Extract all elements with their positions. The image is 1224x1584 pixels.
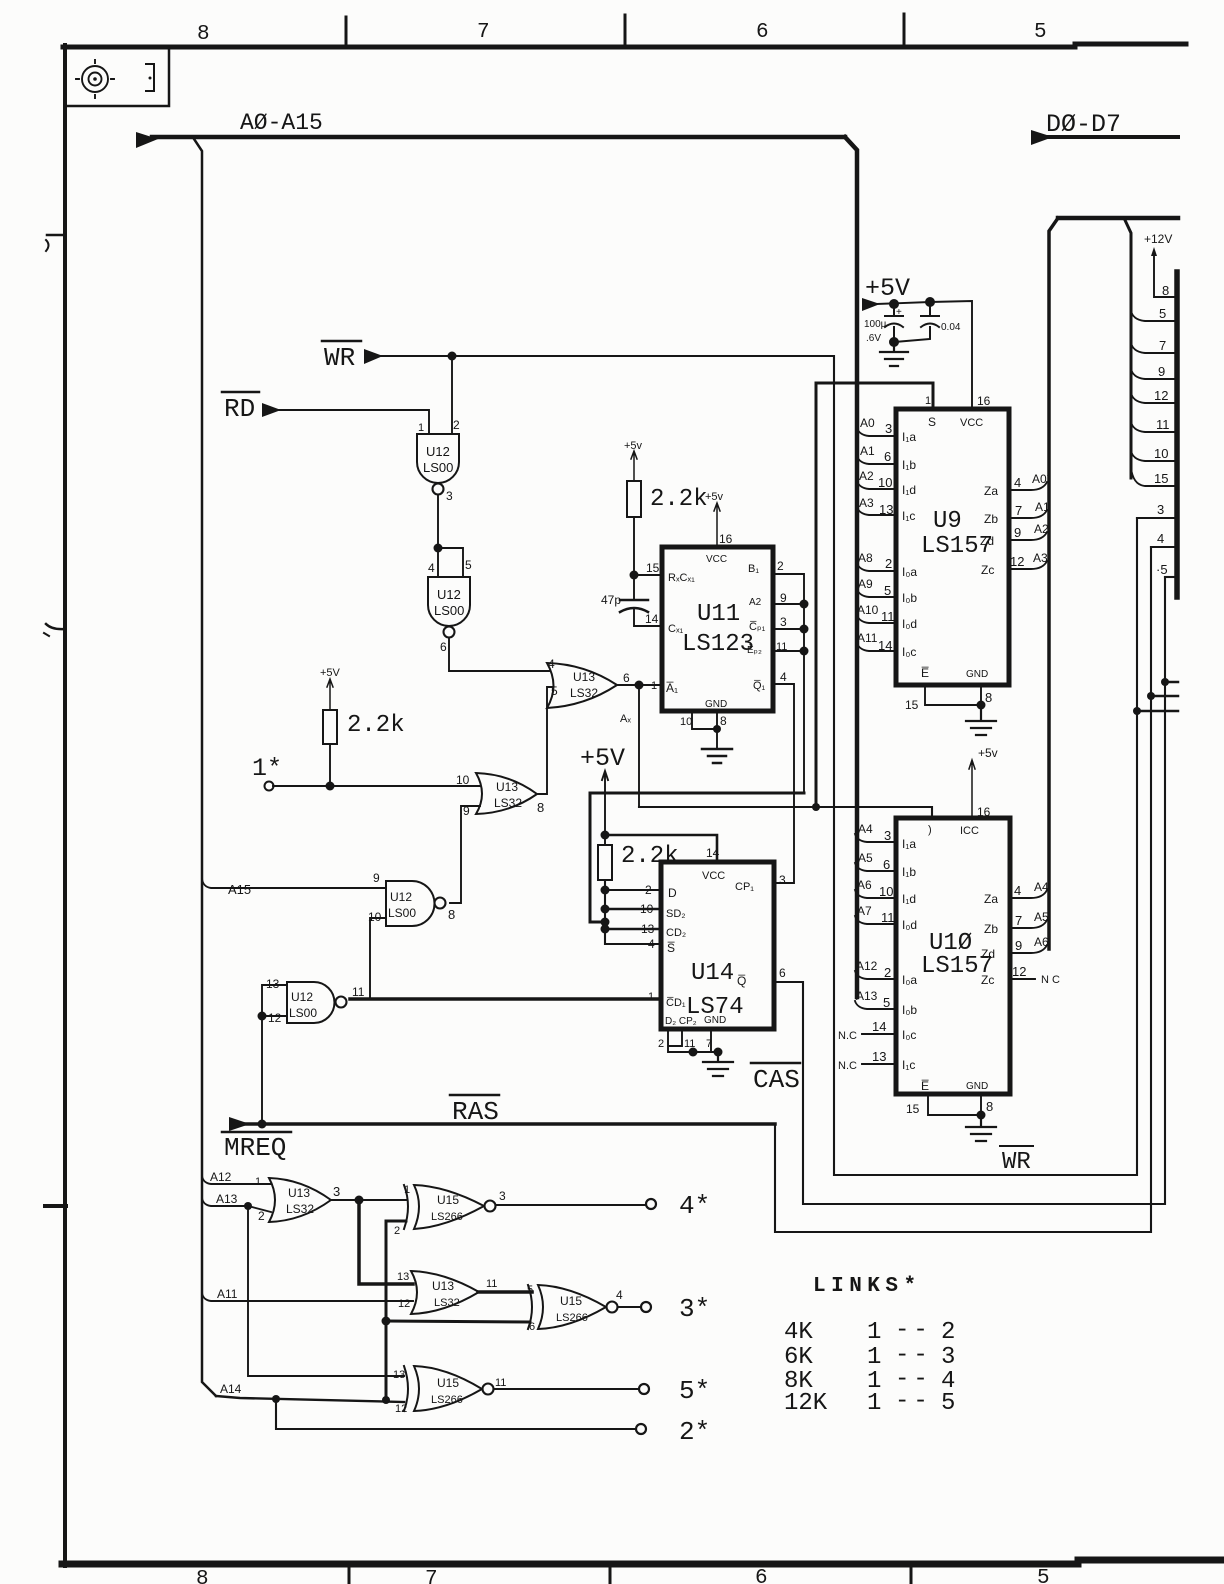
svg-text:--: -- (895, 1388, 932, 1415)
wire U11 pin9 (773, 603, 804, 605)
svg-text:11: 11 (486, 1278, 497, 1290)
U9 out Zd pin9 to bus (1009, 532, 1047, 540)
svg-text:2: 2 (884, 965, 891, 980)
registration bracket mark (146, 64, 154, 91)
svg-text:10: 10 (456, 773, 470, 787)
wire RAM pin bundle drop (1124, 218, 1131, 478)
svg-text:+5V: +5V (320, 667, 341, 679)
RAM pin 11 hook (1131, 422, 1177, 432)
U10 pin2 A12 hook (855, 971, 896, 979)
bus A0-A15 arrowhead (136, 132, 158, 148)
wire U13b out up to U13a pin5 (536, 687, 553, 794)
net CAS from U14 Q (774, 577, 1165, 1204)
svg-text:LS00: LS00 (388, 906, 416, 920)
svg-text:LS00: LS00 (289, 1006, 317, 1020)
svg-text:DØ-D7: DØ-D7 (1046, 110, 1121, 139)
svg-text:+5v: +5v (624, 440, 643, 452)
svg-text:14: 14 (878, 638, 892, 653)
svg-text:I₀c: I₀c (902, 645, 916, 659)
svg-text:A11: A11 (857, 631, 878, 645)
svg-text:I₀a: I₀a (902, 973, 917, 987)
bus D0-D7 arrowhead (1031, 130, 1053, 145)
svg-text:A13: A13 (216, 1192, 238, 1206)
svg-text:E̅: E̅ (921, 666, 929, 680)
svg-text:U13: U13 (432, 1279, 454, 1293)
wire U12d out to U14 pin1 CD1 (350, 997, 661, 1001)
junction cap2 (925, 297, 935, 307)
wire U12a out to U12b inputs (438, 495, 463, 577)
svg-text:+: + (896, 307, 902, 318)
svg-text:I₁b: I₁b (902, 458, 916, 472)
wire R to U11 pin15 (634, 517, 662, 598)
svg-text:100µ: 100µ (864, 319, 887, 330)
svg-text:CP₁: CP₁ (735, 881, 754, 893)
svg-text:1: 1 (867, 1344, 881, 1371)
ground U10 (966, 1115, 996, 1141)
svg-text:Za: Za (984, 484, 998, 498)
svg-text:A0´: A0´ (1032, 472, 1051, 486)
svg-text:4K: 4K (784, 1319, 813, 1346)
svg-text:15: 15 (646, 561, 660, 575)
RAM pin 5 hook (1131, 311, 1177, 321)
svg-text:10: 10 (680, 716, 692, 728)
svg-text:14: 14 (872, 1019, 886, 1034)
wire U13d out to U15b pin5 (478, 1290, 532, 1294)
svg-text:GND: GND (704, 1015, 726, 1026)
svg-text:S: S (928, 415, 936, 429)
wire U13c out to U15a pin1 (330, 1199, 406, 1201)
svg-text:6: 6 (440, 640, 447, 654)
wire +5V to U14 pin14 VCC (605, 835, 717, 862)
svg-text:D: D (668, 886, 677, 900)
XNOR U15c (404, 1366, 408, 1411)
junction WR branch stub (1133, 707, 1141, 715)
junction CAS branch stub (1161, 678, 1169, 686)
svg-text:5: 5 (884, 583, 891, 598)
svg-text:I₀a: I₀a (902, 565, 917, 579)
svg-text:A8: A8 (858, 551, 873, 565)
svg-text:I₁b: I₁b (902, 865, 916, 879)
svg-text:16: 16 (977, 394, 991, 408)
wire to U14 pin2 D (605, 889, 661, 891)
svg-text:ICC: ICC (960, 825, 979, 837)
node A11 tap (202, 1293, 413, 1301)
svg-text:5: 5 (527, 1284, 533, 1296)
svg-text:S̅: S̅ (667, 941, 675, 955)
svg-text:3: 3 (941, 1344, 955, 1371)
left border tick y628 (46, 624, 65, 629)
U9 out Zc pin12 to bus (1009, 561, 1047, 569)
junction WR to U12a (448, 352, 457, 361)
svg-text:6: 6 (756, 21, 769, 44)
junction A14 to 2-star (272, 1395, 280, 1403)
U10 pin11 A7 hook (855, 916, 896, 924)
svg-text:8: 8 (1162, 283, 1169, 298)
wire select to U10 S (639, 807, 932, 818)
registration target mark (82, 66, 108, 92)
wire U12d input tie (262, 985, 287, 1124)
U10 pin6 A5 hook (855, 863, 896, 871)
svg-text:·5: ·5 (1156, 562, 1168, 577)
svg-text:15: 15 (1154, 471, 1168, 486)
capacitor C 0.04 (894, 302, 939, 342)
svg-text:13: 13 (879, 502, 893, 517)
svg-text:I₀c: I₀c (902, 1028, 916, 1042)
svg-text:A10: A10 (857, 603, 879, 617)
svg-text:7: 7 (1159, 338, 1166, 353)
RAM pin 7 hook (1131, 343, 1177, 353)
svg-text:2: 2 (394, 1225, 400, 1237)
svg-text:GND: GND (966, 669, 988, 680)
svg-text:12K: 12K (784, 1390, 828, 1417)
svg-text:U15: U15 (437, 1193, 459, 1207)
svg-text:Zb: Zb (984, 512, 998, 526)
wire muxed address bus vertical (1049, 218, 1058, 949)
wire pullup rail down (605, 880, 661, 944)
junction pullup D (601, 886, 610, 895)
wire RAS branch stub (1151, 695, 1178, 698)
svg-text:GND: GND (966, 1081, 988, 1092)
junction +5V to U14 VCC (601, 831, 610, 840)
svg-text:+5v: +5v (705, 491, 724, 503)
junction A14 to U15a pin2 net (382, 1396, 390, 1404)
svg-text:3: 3 (779, 873, 786, 887)
OR U13b (476, 773, 537, 814)
svg-text:13: 13 (641, 922, 655, 936)
RAM pin 4 wire (RAS) (1151, 546, 1177, 548)
svg-text:8: 8 (537, 800, 544, 815)
svg-text:11: 11 (881, 609, 895, 624)
svg-text:A13: A13 (856, 989, 878, 1003)
svg-text:5*: 5* (679, 1376, 710, 1406)
svg-text:4: 4 (428, 561, 435, 575)
svg-text:A2: A2 (1034, 522, 1049, 536)
junction RxCx (630, 571, 639, 580)
svg-text:U9: U9 (933, 508, 962, 535)
svg-text:A3: A3 (859, 496, 874, 510)
wire MREQ / RAS (246, 1122, 775, 1126)
net select vertical A (638, 685, 640, 807)
svg-text:LS266: LS266 (431, 1211, 463, 1223)
svg-text:RAS: RAS (452, 1097, 499, 1127)
svg-text:2: 2 (258, 1209, 265, 1223)
U9 pin11 A10 hook (857, 615, 896, 623)
svg-text:A11: A11 (217, 1287, 238, 1301)
svg-text:7: 7 (1015, 913, 1022, 928)
svg-text:5: 5 (883, 995, 890, 1010)
svg-text:WR: WR (324, 343, 355, 373)
svg-text:N.C: N.C (838, 1060, 857, 1072)
svg-text:16: 16 (719, 532, 733, 546)
svg-text:A2: A2 (749, 597, 762, 608)
wire RAS route right (775, 547, 1151, 1232)
svg-text:11: 11 (495, 1377, 506, 1389)
svg-text:Zd: Zd (980, 534, 994, 548)
RAM pin 15 hook (1131, 468, 1177, 486)
svg-text:LS32: LS32 (434, 1297, 460, 1309)
svg-text:4: 4 (548, 657, 555, 671)
wire select riser to U9 S (816, 383, 933, 807)
svg-text:11: 11 (881, 910, 895, 925)
svg-text:6: 6 (623, 671, 630, 685)
svg-text:A3: A3 (1033, 551, 1048, 565)
junction A13 branch (244, 1202, 252, 1210)
svg-text:5: 5 (1034, 21, 1047, 44)
zone tick bottom 7/6 (348, 1564, 351, 1584)
svg-text:8: 8 (197, 23, 210, 46)
svg-text:8: 8 (448, 907, 455, 922)
wire U15b out to 3-star (618, 1306, 641, 1308)
svg-text:15: 15 (905, 698, 919, 712)
svg-text:--: -- (895, 1342, 932, 1369)
svg-text:2: 2 (941, 1319, 955, 1346)
junction select riser (812, 803, 820, 811)
svg-text:B₁: B₁ (748, 563, 759, 575)
svg-text:13: 13 (393, 1369, 405, 1381)
page border bottom (62, 1560, 1224, 1564)
svg-text:VCC: VCC (960, 417, 983, 429)
svg-text:4: 4 (780, 670, 787, 684)
svg-text:LS32: LS32 (286, 1202, 314, 1216)
wire U12b out to U13a pin4 (449, 638, 549, 671)
terminal 3-star (641, 1302, 651, 1312)
svg-text:6: 6 (755, 1567, 768, 1584)
wire U15c out to 5-star (494, 1388, 639, 1390)
svg-text:7: 7 (706, 1038, 712, 1050)
svg-text:I₁d: I₁d (902, 892, 916, 906)
svg-text:--: -- (895, 1317, 932, 1344)
svg-text:A5: A5 (1034, 910, 1049, 924)
svg-text:9: 9 (373, 871, 380, 885)
svg-text:8: 8 (720, 714, 727, 728)
wire U12c pin10 from RAS net (370, 918, 386, 998)
wire U11 B1 pin2 to pullup rail (773, 574, 804, 793)
svg-text:AØ-A15: AØ-A15 (240, 110, 323, 136)
svg-text:D₂ CP₂: D₂ CP₂ (665, 1016, 697, 1027)
svg-text:N.C: N.C (838, 1030, 857, 1042)
svg-text:Zc: Zc (981, 973, 994, 987)
svg-text:2: 2 (658, 1038, 664, 1050)
resistor R 2.2k (U14 pullup) (598, 845, 612, 880)
U10 pin14 NC stub (862, 1033, 896, 1035)
NAND U12c (A15) (386, 881, 435, 926)
net RD arrowhead (262, 403, 281, 417)
capacitor 47p (620, 599, 648, 602)
svg-text:A15: A15 (228, 882, 251, 897)
wire muxed address bus loop top (1058, 216, 1178, 221)
svg-text:6: 6 (883, 857, 890, 872)
svg-text:I₁d: I₁d (902, 483, 916, 497)
svg-text:9: 9 (1014, 525, 1021, 540)
svg-text:12: 12 (1012, 964, 1026, 979)
svg-text:A5: A5 (858, 851, 873, 865)
svg-text:5: 5 (941, 1390, 955, 1417)
IC U11 LS123 box (662, 547, 773, 711)
NAND U12a (WR.RD) (417, 434, 459, 483)
wire to U15b pin6 (386, 1321, 530, 1322)
svg-text:CAS: CAS (753, 1065, 800, 1095)
svg-text:1: 1 (648, 991, 654, 1003)
svg-text:10: 10 (1154, 446, 1168, 461)
svg-text:47p: 47p (601, 593, 621, 607)
svg-text:3*: 3* (679, 1294, 710, 1324)
svg-text:LS266: LS266 (556, 1312, 588, 1324)
svg-text:5: 5 (1159, 306, 1166, 321)
svg-text:C̅D₁: C̅D₁ (666, 997, 686, 1009)
U9 out Zb pin7 to bus (1009, 510, 1047, 518)
left border tick y237 (47, 234, 64, 237)
svg-text:A12: A12 (856, 959, 878, 973)
junction pullup from U11 rail (601, 918, 610, 927)
svg-text:3: 3 (884, 828, 891, 843)
svg-text:C̅ₚ₁: C̅ₚ₁ (749, 621, 766, 633)
wire +12V to RAM pin 8 (1154, 252, 1177, 297)
OR U13d (A11) (411, 1271, 479, 1314)
svg-text:3: 3 (780, 615, 787, 629)
RAM pin 3 wire (WR) (1137, 517, 1177, 519)
wire U11 pin3 (773, 628, 804, 630)
U14 bottom pins 2,11,7 (668, 1029, 718, 1052)
IC U14 LS74 box (661, 862, 774, 1029)
svg-text:I₁a: I₁a (902, 430, 916, 444)
svg-text:7: 7 (425, 1568, 438, 1584)
svg-text:A6: A6 (1034, 935, 1049, 949)
U9 pin5 A9 hook (857, 589, 896, 597)
wire bus A0-A15 horizontal (152, 135, 845, 140)
svg-text:A4: A4 (1034, 880, 1049, 894)
U10 out Za pin4 to bus (1010, 890, 1047, 898)
svg-text:8: 8 (986, 1099, 993, 1114)
svg-text:11: 11 (1156, 417, 1170, 432)
svg-text:U12: U12 (426, 444, 450, 459)
svg-text:U13: U13 (496, 780, 518, 794)
svg-text:LS00: LS00 (423, 460, 453, 475)
U10 out Zd pin9 to bus (1010, 945, 1047, 953)
svg-text:2*: 2* (679, 1417, 710, 1447)
svg-text:LS32: LS32 (570, 686, 598, 700)
svg-text:13: 13 (397, 1271, 409, 1283)
wire U15a pin2 from A14 net (386, 1221, 406, 1398)
terminal 5-star (639, 1384, 649, 1394)
svg-text:CD₂: CD₂ (666, 927, 686, 939)
U10 out Zc pin12 NC (1010, 978, 1035, 980)
svg-text:4: 4 (1014, 475, 1021, 490)
zone tick bottom 8/7 (609, 1564, 612, 1584)
svg-text:4: 4 (1157, 531, 1164, 546)
svg-text:13: 13 (266, 977, 280, 991)
node A13 tap (202, 1198, 271, 1212)
junction pullup SD2 (601, 905, 610, 914)
wire WR branch stub (1137, 710, 1178, 713)
svg-text:U11: U11 (697, 601, 740, 628)
NAND U12b (inverter) (428, 577, 470, 626)
svg-text:A4: A4 (858, 822, 873, 836)
RAM pin 10 hook (1131, 451, 1177, 461)
svg-text:GND: GND (705, 699, 727, 710)
OR U13c (A12,A13) (269, 1178, 331, 1222)
left border tick y1206 (45, 1204, 66, 1208)
U9 out Za pin4 to bus (1009, 482, 1047, 490)
svg-text:2.2k: 2.2k (347, 712, 405, 739)
U10 out Zb pin7 to bus (1010, 920, 1047, 928)
svg-text:LS00: LS00 (434, 603, 464, 618)
svg-text:6: 6 (529, 1321, 535, 1333)
svg-text:1: 1 (867, 1390, 881, 1417)
svg-text:I₀b: I₀b (902, 591, 917, 605)
svg-text:VCC: VCC (702, 870, 725, 882)
svg-text:6K: 6K (784, 1344, 813, 1371)
svg-text:5: 5 (465, 558, 472, 572)
svg-text:+5v: +5v (978, 746, 998, 760)
svg-text:14: 14 (645, 612, 659, 626)
wire to U14 pin13 CD2 (605, 928, 661, 930)
zone tick top 8/7 (345, 17, 348, 47)
svg-text:Za: Za (984, 892, 998, 906)
svg-text:A14: A14 (220, 1382, 242, 1396)
svg-text:8: 8 (985, 690, 992, 705)
node A12 tap (202, 1176, 271, 1184)
svg-text:13: 13 (872, 1049, 886, 1064)
svg-text:MREQ: MREQ (224, 1133, 286, 1163)
wire branch down to U13d pin13 (359, 1200, 413, 1284)
wire RD to U12a pin1 (278, 410, 429, 434)
svg-text:12: 12 (395, 1403, 407, 1415)
svg-text:Zc: Zc (981, 563, 994, 577)
junction U12d inputs (258, 1012, 267, 1021)
svg-text:1: 1 (255, 1176, 261, 1188)
svg-text:4: 4 (648, 937, 655, 951)
svg-text:Zb: Zb (984, 922, 998, 936)
svg-text:12: 12 (1010, 554, 1024, 569)
wire WR to U12a pin2 (451, 356, 453, 434)
svg-text:I₀b: I₀b (902, 1003, 917, 1017)
IC U10 LS157 box (896, 818, 1010, 1094)
svg-text:4: 4 (1014, 883, 1021, 898)
RAM pin 9 hook (1131, 369, 1177, 379)
svg-text:0.04: 0.04 (941, 322, 961, 333)
svg-text:U15: U15 (560, 1294, 582, 1308)
svg-text:A12: A12 (210, 1170, 232, 1184)
wire cap to U11 pin14 (634, 610, 662, 626)
svg-text:LS123: LS123 (682, 631, 754, 658)
svg-text:A7: A7 (857, 904, 872, 918)
U9 pin2 A8 hook (857, 563, 896, 571)
terminal 2-star (636, 1424, 646, 1434)
svg-text:9: 9 (1015, 938, 1022, 953)
svg-text:12: 12 (268, 1011, 282, 1025)
svg-text:1: 1 (404, 1184, 410, 1196)
svg-text:3: 3 (446, 489, 453, 503)
svg-text:I₁c: I₁c (902, 1058, 915, 1072)
svg-text:Q̅₁: Q̅₁ (753, 680, 766, 692)
svg-text:10: 10 (640, 902, 654, 916)
svg-text:U13: U13 (288, 1186, 310, 1200)
svg-text:1: 1 (925, 395, 931, 407)
terminal 4-star (646, 1199, 656, 1209)
page border top (63, 44, 1186, 47)
wire bus left stub drop (194, 139, 216, 1396)
OR U13a (select) (547, 663, 617, 708)
wire bus corner down (845, 137, 857, 997)
svg-text:N C: N C (1041, 974, 1060, 986)
svg-text:4*: 4* (679, 1191, 710, 1221)
svg-text:I₀d: I₀d (902, 918, 917, 932)
IC U9 LS157 box (896, 409, 1009, 685)
svg-text:A1: A1 (860, 444, 875, 458)
RAM pin 12 hook (1131, 393, 1177, 403)
wire U13b pin9 from U12c (450, 806, 480, 903)
U9 pin6 A1 hook (857, 456, 896, 464)
